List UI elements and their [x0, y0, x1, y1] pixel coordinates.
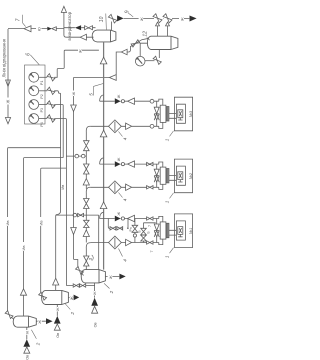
svg-text:1: 1	[164, 200, 169, 203]
filled up triangle	[23, 339, 30, 347]
svg-text:№2: №2	[188, 172, 193, 179]
svg-text:7: 7	[150, 251, 154, 253]
flow arrow down at y=227.5	[71, 228, 77, 235]
hollow up triangle	[92, 306, 98, 313]
svg-text:Р3: Р3	[40, 108, 44, 112]
hollow arrow right	[126, 184, 132, 190]
wire: top horizontal y=28.6	[8, 28, 64, 30]
filled up triangle	[91, 298, 98, 306]
outlet line right	[68, 296, 73, 298]
filled arrow right	[115, 216, 121, 222]
svg-text:Ив: Ив	[61, 185, 65, 190]
outlet line right	[105, 275, 119, 277]
motor sketch	[178, 110, 183, 120]
svg-text:Б: Б	[146, 231, 150, 233]
unit connector with jogs	[154, 99, 163, 128]
svg-text:Ж: Ж	[69, 296, 74, 300]
vessel 12 shell	[147, 36, 178, 49]
hollow up triangle	[24, 347, 30, 353]
check valve on riser A (tilted pair)	[153, 14, 162, 23]
unit connector with jogs	[153, 216, 163, 244]
svg-text:Ов: Ов	[25, 355, 29, 360]
gauge P2	[29, 86, 39, 96]
compressor cylinder rect	[160, 167, 166, 184]
compressor cylinder rect	[160, 222, 166, 239]
wire y=37.2 into vessel 10 left end	[66, 36, 93, 38]
motor block outer	[174, 97, 192, 131]
flow arrow down on left riser	[6, 80, 11, 87]
valve 7 (left-pointing triangle)	[24, 26, 31, 32]
motor sketch	[178, 227, 183, 237]
vessel 3 shell	[42, 290, 69, 304]
svg-text:№3: №3	[188, 110, 193, 117]
corner H2: from x=23.5	[24, 158, 64, 159]
wire: gauge2 sense line down x=60.6	[54, 91, 60, 148]
gauge P3	[29, 100, 39, 110]
coupling hatch block	[166, 169, 169, 183]
hollow valve triangle	[128, 161, 135, 167]
gauge P4	[29, 114, 39, 124]
X valve on aux at y=223.9	[84, 220, 90, 227]
wire y=53.5 elbow	[116, 50, 130, 75]
bypass loop under discharge	[108, 219, 128, 229]
svg-text:Ж: Ж	[180, 17, 185, 21]
check valve on riser B (tilted pair)	[163, 14, 172, 23]
pressure gauge circle	[135, 56, 145, 66]
outflow filled arrow	[119, 274, 125, 280]
wire: riser B into vessel 12	[167, 26, 169, 36]
vessel 11 shell	[81, 270, 105, 283]
angled inlet valve from V2	[5, 311, 13, 319]
svg-text:Р4: Р4	[40, 122, 44, 126]
svg-text:Ю: Ю	[37, 27, 42, 31]
wire: gauge4 sense line down x=66.4	[54, 119, 66, 286]
svg-text:Ив: Ив	[5, 221, 10, 226]
suction line No3 y=126.3	[90, 125, 150, 127]
filled arrow right on top line	[117, 15, 124, 21]
hollow valve triangle	[128, 98, 135, 104]
wire V4 feed x=40.7 down	[40, 169, 42, 293]
hollow arrow right	[126, 239, 132, 245]
wire: x=98.7 down to vessel 11	[98, 215, 100, 270]
flow arrow up on aux y=233	[83, 230, 89, 237]
X valve on aux at y=169	[84, 164, 90, 174]
svg-text:Ж: Ж	[93, 291, 97, 295]
wire aux vertical	[86, 126, 90, 269]
unit connector with jogs	[153, 162, 163, 189]
gauge valve 4	[39, 118, 48, 120]
flow arrow down at y=105	[71, 105, 77, 112]
svg-text:Ж: Ж	[116, 212, 121, 216]
svg-text:Ив: Ив	[21, 246, 26, 251]
svg-text:Р1: Р1	[40, 81, 44, 85]
svg-text:12: 12	[143, 31, 149, 37]
flow arrow up on header y=205	[100, 202, 107, 209]
shaft lines	[169, 176, 177, 181]
motor block inner	[176, 166, 185, 185]
filled arrow right	[115, 161, 121, 167]
X valve 3 on aux at y=261	[84, 256, 89, 266]
bowtie a	[73, 284, 79, 287]
coupling hatch block	[166, 107, 169, 122]
discharge line No3 y=101.2 with elbow	[100, 95, 151, 101]
terminal arrow down (line end)	[5, 118, 10, 124]
svg-text:Ов: Ов	[56, 333, 60, 338]
wire: left riser x=8	[7, 29, 9, 118]
flange circle	[121, 163, 124, 166]
hollow up triangle	[54, 324, 60, 330]
wire V2 left feed x=7.5 down	[7, 149, 9, 312]
filter diamond No1	[109, 236, 122, 249]
equalize line y=156.1 with flanges	[66, 155, 86, 157]
bottom cross line y=285.5 with two bowties	[66, 285, 94, 287]
svg-text:9: 9	[125, 10, 131, 13]
wire to gauge right side	[145, 60, 155, 62]
X valve on aux at y=145.7	[84, 141, 90, 151]
vessel 10 shell	[92, 30, 116, 42]
filter diamond No2	[109, 181, 122, 194]
flow arrow up on V3	[20, 289, 26, 295]
svg-text:4: 4	[122, 137, 127, 140]
corner H3: from x=40.7	[41, 168, 67, 169]
angled valve into vessel 11	[76, 267, 84, 275]
gauge valve 1 (tilted bowtie)	[39, 76, 48, 78]
hollow arrow right	[126, 123, 132, 129]
svg-text:2: 2	[70, 312, 75, 316]
bowtie b	[80, 284, 86, 287]
hollow valve triangle	[128, 215, 135, 221]
inlet flange top	[150, 99, 154, 103]
wire: vessel 12 left nozzle to gauge	[140, 43, 147, 56]
filled arrow right	[115, 98, 121, 104]
coupling hatch block	[166, 223, 169, 237]
branch A x=134.9	[134, 219, 136, 243]
svg-text:Ж: Ж	[25, 330, 29, 334]
flow arrow up on aux y=181.7	[83, 179, 89, 186]
flange circle	[121, 217, 124, 220]
hollow valve triangle on y=53.5	[121, 49, 127, 55]
svg-text:Лінія відпарювання: Лінія відпарювання	[2, 38, 7, 77]
bowtie valve (left half filled)	[47, 27, 52, 31]
wire: riser A into vessel 12	[157, 26, 159, 36]
shaft lines	[169, 230, 177, 235]
flange circle b	[81, 154, 85, 158]
svg-text:4: 4	[122, 259, 127, 262]
drain from vessel 2	[26, 327, 28, 339]
tilted check pair on diagonal	[131, 40, 140, 47]
svg-text:2: 2	[109, 290, 114, 294]
wire y=77.5 to left corner	[74, 77, 110, 79]
X valve pair branch B	[141, 228, 147, 241]
outlet line right	[36, 320, 46, 322]
flow arrow up on feeder	[53, 278, 59, 285]
wire: riser from vessel 10 top	[111, 22, 113, 31]
compressor cylinder rect	[160, 105, 166, 122]
flow arrow up on header y=60	[100, 57, 107, 64]
bowtie valve on y=27.7	[85, 26, 93, 30]
bowtie valve on y=215.1	[78, 213, 84, 216]
svg-text:7: 7	[148, 225, 152, 227]
svg-text:Ж: Ж	[56, 307, 60, 311]
panel box	[25, 65, 46, 124]
inlet bowtie bottom	[147, 241, 153, 244]
svg-text:Р2: Р2	[40, 94, 44, 98]
discharge line No1 y=218.5 with elbow	[100, 212, 147, 218]
equalize line y=215.1 with flange+valve	[56, 214, 99, 216]
wire: condenser riser x=63.9	[64, 12, 66, 37]
svg-text:Ж: Ж	[71, 92, 76, 96]
outflow filled arrow right edge	[190, 16, 197, 22]
X valve pair on connector	[154, 224, 159, 237]
flange circle branch A	[133, 234, 136, 237]
check valve (tilted pair) on riser	[108, 14, 117, 23]
svg-text:Ж: Ж	[78, 49, 83, 53]
flow arrow up on header y=133	[100, 130, 107, 137]
bypass bowtie b	[117, 227, 123, 230]
svg-text:Ж: Ж	[116, 157, 121, 161]
svg-text:Ж: Ж	[37, 320, 42, 324]
check valve tilted on outlet	[153, 56, 161, 64]
discharge line No2 y=164.1 with elbow	[100, 158, 147, 164]
X valve branch A	[132, 225, 138, 232]
X valve pair on connector	[154, 107, 159, 120]
svg-text:1: 1	[164, 138, 169, 141]
feeder line with jog	[56, 148, 61, 291]
svg-text:Ж: Ж	[6, 100, 11, 104]
svg-text:Ов: Ов	[93, 322, 97, 327]
wire diagonal with check valves	[130, 38, 148, 50]
filled arrow left on y=27.7	[75, 25, 81, 30]
drain from vessel 3	[56, 305, 58, 316]
suction line No1 y=242.5	[90, 242, 146, 244]
motor block outer	[174, 214, 192, 248]
outflow filled arrow	[46, 318, 53, 324]
gauge valve 3	[39, 104, 48, 106]
arrow up to condenser (hollow)	[61, 6, 66, 12]
gauge needle	[136, 58, 142, 64]
wire y=27.7 from riser to vessel 10 top	[64, 27, 96, 29]
branch B x=143.5	[144, 223, 156, 243]
inlet bowtie top	[147, 162, 153, 165]
gauge valve 2	[39, 90, 48, 92]
svg-text:3: 3	[88, 258, 93, 261]
svg-text:5: 5	[89, 93, 94, 96]
drain from vessel 11	[94, 283, 96, 298]
wire: top discharge line y=18.4	[124, 17, 190, 19]
suction line No2 y=187.3	[90, 186, 146, 188]
wire: gauge3 sense line down x=63.2	[54, 105, 63, 158]
corner H1: from x=7.5	[8, 148, 61, 149]
svg-text:10: 10	[99, 16, 105, 22]
gauge P1	[29, 72, 39, 82]
bypass bowtie a	[110, 227, 116, 230]
vessel 2 shell	[13, 316, 36, 327]
outflow filled arrow	[74, 295, 80, 301]
wire x=73.5 down	[74, 78, 78, 267]
wire: vessel10 bottom line y=50.2 to gauge1	[54, 50, 99, 77]
motor sketch	[178, 172, 183, 182]
svg-text:в конденсатор: в конденсатор	[67, 11, 72, 40]
svg-text:№1: №1	[188, 228, 193, 234]
shaft lines	[169, 114, 177, 119]
svg-text:Ж: Ж	[116, 94, 121, 98]
motor block inner	[176, 104, 185, 123]
svg-text:Б: Б	[137, 230, 141, 232]
X valve on aux at y=203.5	[84, 199, 90, 209]
wire: vessel 12 bottom outlet	[158, 50, 160, 59]
svg-text:7: 7	[15, 18, 21, 21]
hollow valve triangle on y=37.2	[80, 34, 86, 40]
svg-text:1: 1	[164, 255, 169, 258]
motor block inner	[176, 221, 185, 240]
inlet bowtie top	[147, 217, 153, 220]
wire V3 feed x=23.5 down	[23, 159, 25, 317]
svg-text:Рн: Рн	[129, 227, 133, 231]
angled inlet valve from V4	[39, 292, 47, 300]
inlet flange bottom	[150, 124, 154, 128]
filter diamond No3	[109, 120, 122, 133]
motor block outer	[174, 159, 192, 193]
hollow valve triangle on y=77.5	[109, 75, 116, 81]
flange circle a	[75, 154, 79, 158]
flange circle	[73, 213, 77, 217]
main header vertical x=103.6	[103, 42, 105, 270]
inlet bowtie bottom	[147, 186, 153, 189]
svg-text:Ж: Ж	[108, 275, 113, 279]
svg-text:Ив: Ив	[38, 221, 43, 226]
X valve pair on connector	[154, 169, 159, 182]
svg-text:Ж: Ж	[139, 17, 144, 21]
flange circle	[121, 100, 124, 103]
svg-text:2: 2	[36, 342, 41, 346]
svg-text:4: 4	[122, 198, 127, 201]
filled up triangle	[54, 316, 61, 324]
